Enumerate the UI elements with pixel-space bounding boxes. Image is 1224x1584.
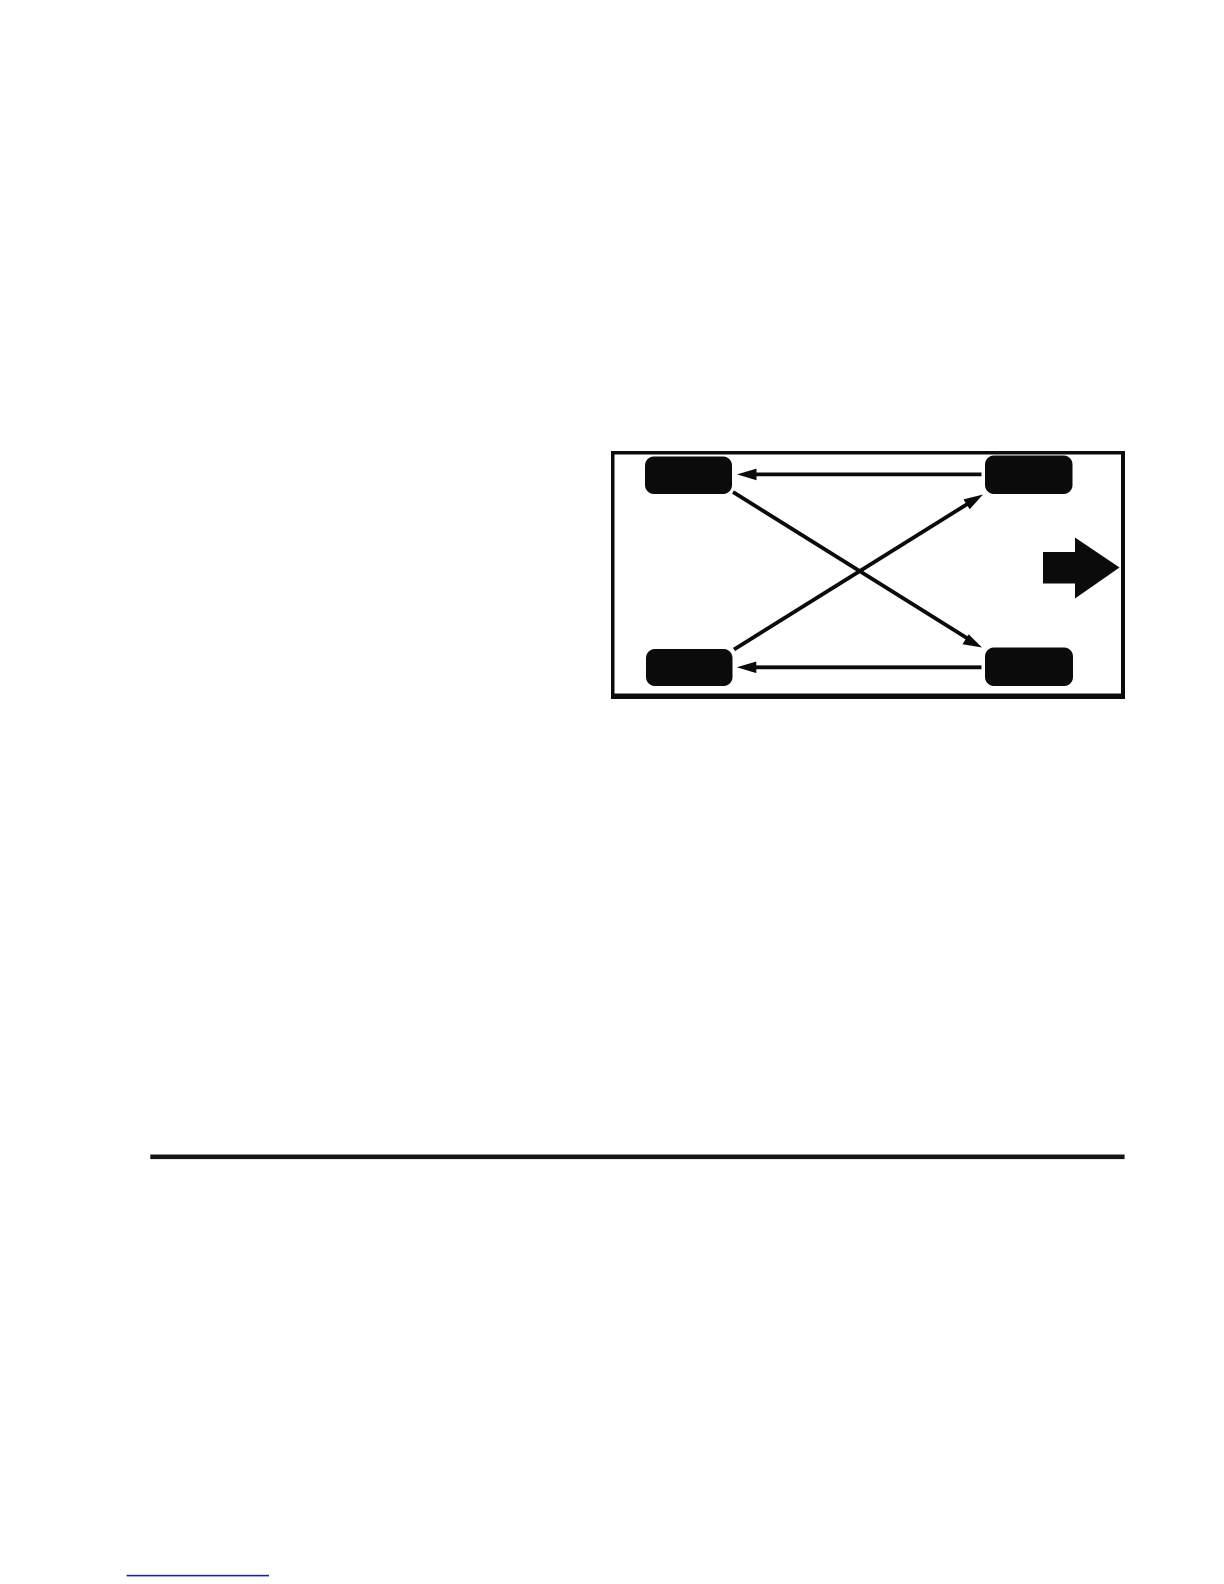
arrow left-front to right-rear (diagonal, points down-right): [733, 492, 982, 648]
arrow right-rear to left-rear (bottom horizontal, points left): [737, 662, 982, 674]
horizontal rule: [150, 1155, 1124, 1160]
hyperlink underline (blue): [127, 1575, 269, 1577]
tire right-rear (bottom-right): [985, 648, 1073, 687]
arrow right-front to left-front (top horizontal, points left): [737, 469, 982, 481]
arrow left-rear to right-front (diagonal, points up-right): [734, 495, 983, 650]
diagram frame outer border: [611, 451, 1125, 699]
tire left-rear (bottom-left): [646, 649, 733, 686]
tire left-front (top-left): [645, 457, 732, 495]
forward direction arrow (large solid, points right): [1043, 538, 1120, 599]
tire right-front (top-right): [985, 456, 1073, 495]
